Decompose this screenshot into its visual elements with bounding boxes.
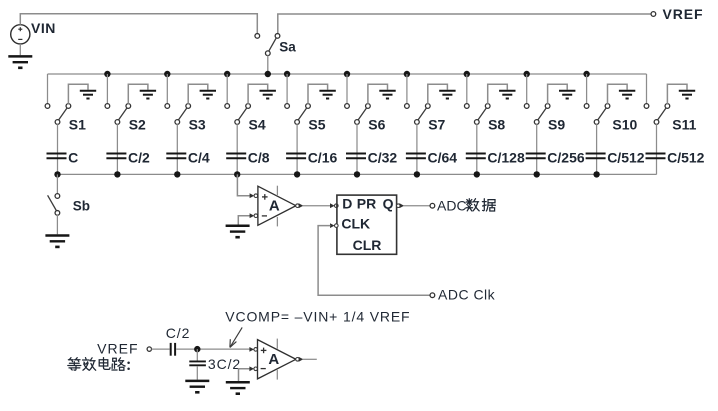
svg-text:C: C <box>68 150 78 166</box>
terminal ADC data <box>430 203 435 208</box>
svg-text:S10: S10 <box>612 116 637 132</box>
svg-text:Sa: Sa <box>279 39 296 54</box>
svg-text:Sb: Sb <box>73 199 90 214</box>
junction node VCOMP <box>194 346 200 352</box>
svg-text:D: D <box>342 196 352 212</box>
junction Sa-bus <box>265 71 271 77</box>
svg-text:S9: S9 <box>548 116 565 132</box>
arrow VCOMP pointer <box>230 327 242 347</box>
switch S8 cell <box>464 71 516 178</box>
wire bottom bus to comparator + input <box>237 174 249 195</box>
svg-text:CLK: CLK <box>341 216 370 232</box>
svg-text:3C/2: 3C/2 <box>208 356 241 372</box>
wire - input to ground (lower) <box>239 369 251 382</box>
pin output (lower) <box>296 358 300 362</box>
svg-text:S3: S3 <box>189 116 206 132</box>
switch S5 cell <box>284 71 336 178</box>
svg-text:C/2: C/2 <box>166 325 191 341</box>
svg-text:A: A <box>269 197 280 214</box>
pin Q output <box>397 204 401 208</box>
switch S6 cell <box>344 71 396 178</box>
svg-text:Q: Q <box>383 196 394 212</box>
svg-text:C/4: C/4 <box>188 150 210 166</box>
op-amp A (comparator) <box>258 186 296 227</box>
switch Sb <box>48 174 60 234</box>
capacitor 3C/2 <box>189 349 206 380</box>
ground (Sb) <box>45 234 69 237</box>
switch S10 cell <box>583 71 635 178</box>
svg-text:C/32: C/32 <box>368 150 398 166</box>
svg-text:S6: S6 <box>368 116 385 132</box>
svg-text:C/512: C/512 <box>667 150 705 166</box>
pin + input <box>250 193 255 198</box>
svg-text:ADC Clk: ADC Clk <box>438 287 496 303</box>
wire comparator output to D <box>303 205 331 207</box>
label 等效电路: glyphs <box>68 358 81 371</box>
svg-text:VCOMP= –VIN+ 1/4 VREF: VCOMP= –VIN+ 1/4 VREF <box>225 308 410 324</box>
svg-text:C/8: C/8 <box>248 150 270 166</box>
svg-text:VIN: VIN <box>31 20 56 36</box>
switch S2 cell <box>104 71 156 178</box>
switch S3 cell <box>164 71 216 178</box>
svg-text:S8: S8 <box>488 116 505 132</box>
pin CLK input <box>330 223 335 228</box>
capacitor C/2 <box>170 343 172 356</box>
switch S1 cell <box>45 74 96 178</box>
svg-text:C/128: C/128 <box>487 150 525 166</box>
wire Q to ADC data terminal <box>403 205 430 207</box>
pin - input (lower) <box>249 366 254 371</box>
wire VREF rail <box>278 14 652 34</box>
switch S11 cell <box>644 74 695 174</box>
svg-text:C/16: C/16 <box>308 150 338 166</box>
terminal VREF <box>651 12 656 17</box>
svg-text:C/64: C/64 <box>428 150 458 166</box>
wire VIN to Sa left contact <box>20 14 257 34</box>
switch Sa <box>255 34 280 74</box>
svg-text:S5: S5 <box>308 116 325 132</box>
svg-text:C/256: C/256 <box>547 150 585 166</box>
pin - input <box>250 213 255 218</box>
svg-text:S7: S7 <box>428 116 445 132</box>
wire top bus <box>48 73 647 75</box>
ground (3C/2) <box>185 380 209 383</box>
voltage source VIN <box>11 25 30 44</box>
svg-text:S1: S1 <box>69 116 86 132</box>
wire bottom bus <box>57 173 656 175</box>
terminal ADC Clk <box>430 293 435 298</box>
pin D input <box>330 203 335 208</box>
svg-text:CLR: CLR <box>353 237 382 253</box>
svg-text:C/512: C/512 <box>607 150 645 166</box>
D flip-flop box <box>337 195 397 254</box>
svg-text:S11: S11 <box>672 116 696 132</box>
svg-text:VREF: VREF <box>663 6 704 22</box>
wire C/2 to + input <box>176 348 250 350</box>
terminal VREF input <box>147 347 151 351</box>
switch S7 cell <box>404 71 456 178</box>
wire - input to ground <box>238 216 250 225</box>
ground (VIN source) <box>8 44 32 68</box>
ground (lower - input) <box>226 381 250 384</box>
svg-text:A: A <box>268 351 279 368</box>
svg-text:PR: PR <box>357 196 376 212</box>
wire output stub (lower) <box>303 358 317 360</box>
pin comparator output <box>296 204 300 208</box>
svg-text:C/2: C/2 <box>128 150 150 166</box>
svg-text:S4: S4 <box>249 116 266 132</box>
label 数据 glyphs <box>466 199 479 211</box>
switch S4 cell <box>224 71 276 178</box>
svg-text:VREF: VREF <box>97 341 138 357</box>
svg-text:S2: S2 <box>129 116 146 132</box>
wire terminal to C/2 <box>152 348 170 350</box>
pin + input (lower) <box>249 347 254 352</box>
wire ADC Clk to CLK <box>318 226 430 296</box>
op-amp A (equivalent circuit) <box>258 339 296 380</box>
switch S9 cell <box>524 71 576 178</box>
ground (comparator - input) <box>226 225 250 228</box>
svg-text:ADC: ADC <box>437 198 467 214</box>
